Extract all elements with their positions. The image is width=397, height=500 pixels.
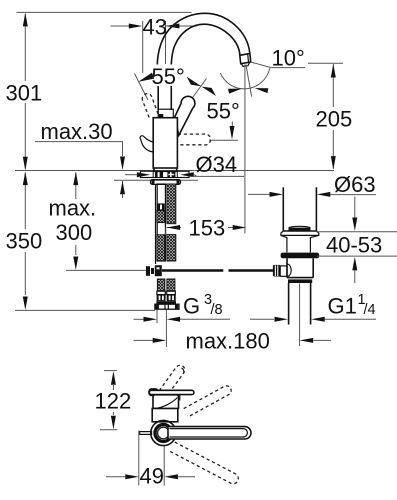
svg-text:301: 301 — [6, 81, 43, 106]
dashed lever horizontal position — [178, 134, 211, 145]
body block — [152, 409, 178, 422]
dashed lever upper-left position — [142, 94, 158, 118]
dim G1 1/4 — [250, 318, 274, 320]
upper rim taper — [281, 231, 287, 252]
faucet body — [153, 118, 177, 168]
dashed lever down — [170, 442, 238, 484]
pop-up rod vertical — [155, 184, 157, 264]
dimension 43 — [142, 21, 144, 73]
svg-text:G: G — [183, 294, 200, 319]
escutcheon flange — [141, 171, 190, 177]
dim Ø63 — [248, 193, 270, 195]
left port — [280, 266, 287, 276]
svg-text:/4: /4 — [364, 302, 376, 318]
dashed lever up-steep — [159, 365, 185, 396]
upper sleeve walls — [282, 187, 284, 231]
swivel ring — [151, 420, 176, 445]
G3/8 connectors — [157, 291, 165, 294]
dim 40-53 — [317, 231, 397, 233]
dim 49 — [138, 431, 140, 486]
counter bottom line — [114, 179, 198, 181]
faucet neck — [158, 109, 173, 118]
svg-text:G1: G1 — [328, 294, 357, 319]
55#1 left leader (dashed lever axis) — [135, 74, 149, 101]
dim max.180 — [134, 339, 154, 341]
cartridge cap — [153, 395, 179, 409]
10 deg label leader — [251, 62, 305, 68]
dim 153 — [166, 228, 181, 236]
outlet 10deg line — [246, 65, 252, 97]
knurled knob — [273, 265, 281, 277]
clamp nut with bars — [153, 172, 177, 178]
solid lever upright position — [175, 96, 195, 135]
dimension 205 — [332, 64, 334, 107]
dim 122 — [104, 370, 117, 372]
55 deg #1 label — [150, 65, 186, 87]
svg-text:122: 122 — [95, 389, 132, 414]
plug cap — [289, 226, 311, 228]
svg-text:55°: 55° — [152, 64, 185, 89]
svg-text:Ø63: Ø63 — [334, 172, 376, 197]
svg-text:10°: 10° — [272, 46, 305, 71]
dimension 301 — [24, 14, 26, 82]
tailpipe joint band — [288, 279, 312, 283]
mounting nut under deck — [151, 180, 181, 185]
svg-text:153: 153 — [189, 216, 226, 241]
dashed lever up-shallow — [184, 386, 232, 417]
rod guide nut — [158, 204, 164, 210]
lower hose braid stubs — [157, 279, 164, 291]
counter line — [15, 170, 334, 172]
ball socket arc — [287, 264, 291, 277]
top reference line (spout max height) — [17, 11, 192, 13]
svg-text:40-53: 40-53 — [326, 233, 382, 258]
drain body — [287, 258, 313, 277]
left hose braid segments — [157, 211, 165, 223]
spout nozzle collar — [240, 54, 251, 64]
55#2 arrow to horizontal dashed lever — [231, 122, 233, 128]
solid lever bar — [149, 389, 158, 396]
dim max.300 — [75, 173, 77, 200]
svg-text:Ø34: Ø34 — [196, 152, 238, 177]
10 deg arc — [220, 68, 269, 89]
dim G3/8 — [156, 310, 158, 324]
svg-text:max.180: max.180 — [186, 329, 270, 354]
spout outer curve — [157, 13, 250, 110]
svg-text:55°: 55° — [207, 99, 240, 124]
svg-text:max.30: max.30 — [41, 119, 113, 144]
shank left tube — [157, 184, 165, 261]
spout inner curve — [171, 24, 240, 110]
55#1 right bowtie on solid lever axis — [188, 79, 207, 105]
svg-text:43: 43 — [143, 14, 167, 39]
flange ring (black) — [281, 253, 320, 259]
svg-text:/8: /8 — [211, 302, 223, 318]
left stub — [140, 432, 152, 435]
svg-text:350: 350 — [6, 228, 43, 253]
svg-text:max.: max. — [49, 196, 97, 221]
tailpipe — [288, 283, 290, 325]
svg-text:205: 205 — [316, 106, 353, 131]
horizontal pop-up actuating rod — [66, 269, 146, 271]
spout tube — [158, 427, 170, 439]
svg-text:49: 49 — [140, 463, 164, 488]
right hose braid — [167, 184, 176, 224]
dim Ø34 — [125, 174, 137, 176]
handle paddle on left — [140, 136, 153, 152]
svg-text:300: 300 — [56, 220, 93, 245]
outlet plumb line — [244, 65, 246, 234]
dim 350 — [24, 173, 26, 230]
